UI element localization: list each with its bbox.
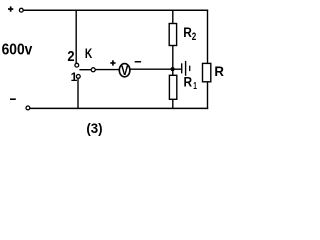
- label R1: [184, 74, 198, 92]
- capacitor right plate: [185, 61, 187, 76]
- switch K contact 1: [76, 75, 80, 79]
- svg-text:V: V: [121, 62, 129, 78]
- battery negative terminal minus label: [10, 98, 16, 100]
- voltmeter V: [119, 62, 130, 78]
- label R2: [183, 25, 196, 43]
- resistor R2: [169, 24, 176, 46]
- battery negative terminal: [26, 106, 30, 110]
- svg-text:K: K: [85, 46, 93, 61]
- wire switch contact 1 to bottom rail: [77, 78, 79, 109]
- resistor R: [203, 63, 211, 81]
- svg-text:R: R: [214, 63, 224, 79]
- wire bottom rail: [30, 107, 208, 109]
- switch K contact 2: [75, 63, 79, 67]
- battery positive terminal: [19, 8, 23, 12]
- wire resistor R to bottom rail: [207, 81, 209, 109]
- capacitor left plate: [181, 63, 183, 73]
- svg-text:R: R: [183, 25, 192, 40]
- switch K blade: [79, 69, 91, 71]
- wire top rail: [23, 9, 208, 11]
- voltmeter minus polarity label: [135, 61, 141, 63]
- wire switch pole to voltmeter: [95, 69, 119, 71]
- wire resistor R2 to resistor R1 through node A: [172, 45, 174, 76]
- resistor R1: [169, 75, 176, 99]
- svg-text:2: 2: [67, 48, 74, 65]
- wire voltmeter to capacitor via node A: [130, 68, 182, 70]
- switch K pole: [91, 68, 95, 72]
- wire top rail to resistor R2: [172, 10, 174, 24]
- node A junction dot: [171, 67, 175, 71]
- svg-text:1: 1: [193, 81, 197, 92]
- wire top rail to switch contact 2: [75, 10, 77, 63]
- svg-text:600v: 600v: [2, 41, 33, 58]
- wire resistor R1 to bottom rail: [172, 99, 174, 109]
- svg-text:R: R: [184, 74, 193, 89]
- battery positive terminal plus label: [8, 6, 13, 11]
- svg-text:2: 2: [192, 31, 197, 43]
- svg-text:(3): (3): [86, 121, 102, 136]
- wire top rail to resistor R: [207, 10, 209, 64]
- capacitor short electrode mark: [189, 66, 191, 72]
- voltmeter plus polarity label: [110, 60, 115, 65]
